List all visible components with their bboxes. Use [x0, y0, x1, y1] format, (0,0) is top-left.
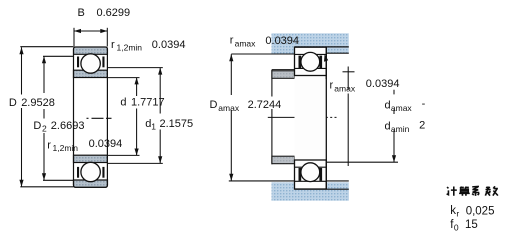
r_amax mid leader [325, 58, 327, 80]
outer ring inner edge top (right fig) [295, 53, 327, 55]
svg-text:amin: amin [391, 124, 410, 134]
housing top-right tab [326, 47, 349, 53]
arrow D_amax top [229, 54, 233, 61]
d_a top tick [343, 71, 355, 73]
svg-text:2: 2 [419, 120, 425, 132]
svg-text:d: d [120, 97, 126, 109]
housing seat line bottom right [326, 180, 349, 182]
cage bar bottom-left (left fig) [77, 167, 79, 178]
arrow D2 bottom [42, 173, 46, 180]
svg-text:2.7244: 2.7244 [248, 99, 282, 111]
housing bottom-right tab [326, 182, 349, 200]
svg-text:amax: amax [235, 39, 257, 49]
wire: B dimension line [74, 30, 107, 32]
svg-text:0: 0 [454, 222, 459, 232]
wire: d1 top extension line [107, 67, 162, 69]
arrow d_amin [392, 155, 396, 162]
svg-text:amax: amax [391, 103, 413, 113]
housing bottom band [272, 190, 349, 201]
shaft shoulder face line [271, 70, 273, 165]
centerline right figure [268, 116, 337, 118]
hanzi 计 [447, 186, 457, 195]
shaft shoulder top line [272, 69, 295, 71]
ball top (left fig) [81, 54, 100, 73]
outer ring inner edge bottom (right fig) [295, 180, 327, 182]
housing shoulder edge + r_amax leader (top left) [231, 53, 294, 55]
bearing outline box (left fig) [74, 47, 108, 187]
svg-text:d: d [385, 99, 391, 111]
cage bar top-left (left fig) [77, 57, 79, 68]
arrow d1 bottom [158, 156, 162, 163]
ball bottom (right fig) [301, 163, 320, 182]
svg-text:D: D [9, 97, 17, 109]
svg-text:2.1575: 2.1575 [160, 118, 194, 130]
svg-text:D: D [210, 99, 218, 111]
d_a dimension line [347, 67, 349, 167]
svg-text:1: 1 [151, 122, 156, 132]
wire: D bottom extension line [20, 186, 73, 188]
d_amin extension line [326, 161, 398, 163]
D_amax dimension line [230, 54, 232, 181]
bearing outer ring bottom (left fig) [74, 180, 108, 187]
ball bottom (left fig) [81, 162, 100, 181]
bearing white body (right fig) [295, 47, 327, 189]
wire: D2 top extension line [43, 55, 74, 57]
svg-text:1,2min: 1,2min [117, 43, 143, 53]
hanzi 算 [459, 187, 470, 196]
svg-text:1,2min: 1,2min [53, 143, 79, 153]
svg-text:amax: amax [334, 84, 356, 94]
wire: D2 dimension line [43, 56, 45, 180]
svg-text:0.6299: 0.6299 [97, 7, 131, 19]
hanzi 系 [472, 186, 479, 195]
cage bar left bottom (right fig) [299, 168, 302, 181]
svg-text:k: k [450, 205, 456, 217]
svg-text:2.6693: 2.6693 [51, 120, 85, 132]
arrow B left [74, 29, 81, 33]
housing top-left shoulder tab [272, 47, 295, 54]
bearing top section outline (right fig) [295, 47, 327, 75]
cage bar right bottom (right fig) [319, 168, 322, 181]
d_amin leader dashes [393, 90, 395, 162]
bearing bottom section outline (right fig) [295, 160, 327, 189]
arrow D top [19, 47, 23, 54]
wire: d bottom extension line [107, 154, 139, 156]
arrow d top [135, 77, 139, 84]
shaft abutment band top [272, 71, 295, 79]
wire: D top extension line [20, 46, 73, 48]
bearing outer ring top (left fig) [74, 47, 108, 54]
wire: D2 bottom extension line [43, 179, 74, 181]
bearing right side full line (right fig) [325, 47, 327, 189]
cage bar top-right (left fig) [102, 57, 104, 68]
svg-text:0,025: 0,025 [466, 205, 495, 217]
shaft abutment band bottom [272, 156, 295, 164]
arrow d1 top [158, 68, 162, 75]
svg-text:2: 2 [42, 124, 47, 134]
wire: d dimension line [136, 77, 138, 155]
cage bar bottom-right (left fig) [102, 167, 104, 178]
svg-text:0.0394: 0.0394 [265, 35, 299, 47]
housing bottom-left shoulder tab [272, 182, 295, 200]
svg-text:amax: amax [218, 103, 240, 113]
wire: d1 dimension line [159, 68, 161, 164]
inner ring top edge top section (right fig) [295, 67, 327, 69]
housing top band [272, 33, 349, 47]
housing bore line over bearing and right tab [295, 46, 349, 48]
housing seat line bottom left + D_amax extension [229, 180, 295, 182]
svg-text:r: r [230, 35, 234, 47]
svg-text:0.0394: 0.0394 [152, 39, 186, 51]
arrow D_amax bottom [229, 174, 233, 181]
cage bar left top (right fig) [299, 56, 302, 69]
housing right tab bottom edge [326, 52, 349, 54]
arrow B right [100, 29, 107, 33]
bearing inner ring bottom section (left fig) [74, 155, 108, 162]
hanzi 数 [485, 186, 498, 195]
wire: D dimension line [21, 47, 23, 187]
svg-text:0.0394: 0.0394 [366, 78, 400, 90]
centerline left figure [87, 117, 112, 119]
svg-text:D: D [33, 120, 41, 132]
svg-text:r: r [47, 139, 51, 151]
wire: d top extension line [107, 77, 139, 79]
svg-text:r: r [456, 209, 459, 219]
ball top (right fig) [301, 52, 320, 71]
wire: B right extension line [106, 28, 108, 47]
svg-text:15: 15 [465, 219, 478, 231]
svg-text:r: r [111, 39, 115, 51]
svg-text:r: r [330, 80, 334, 92]
cage bar right top (right fig) [319, 56, 322, 69]
arrow r_amax mid [324, 54, 328, 61]
arrow d bottom [135, 149, 139, 156]
shaft seat line under bearing extended right [295, 188, 349, 190]
svg-text:B: B [78, 7, 85, 19]
inner ring bottom edge bottom section (right fig) [295, 166, 327, 168]
wire: B left extension line [73, 28, 75, 47]
svg-text:0.0394: 0.0394 [89, 138, 123, 150]
svg-text:1.7717: 1.7717 [131, 97, 165, 109]
bearing inner ring top section (left fig) [74, 70, 108, 77]
svg-text:2.9528: 2.9528 [21, 97, 55, 109]
arrow D bottom [19, 180, 23, 187]
svg-text:d: d [385, 120, 391, 132]
wire: d1 bottom extension line [107, 162, 162, 164]
svg-text:-: - [422, 98, 426, 110]
arrow D2 top [42, 56, 46, 63]
